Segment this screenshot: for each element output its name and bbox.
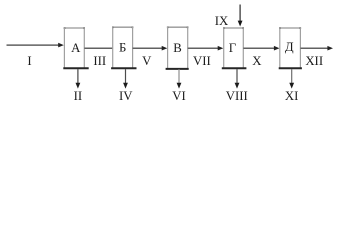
- svg-text:VI: VI: [172, 89, 186, 103]
- svg-text:Г: Г: [229, 41, 236, 55]
- wire A to B, node III: [84, 47, 112, 49]
- svg-text:V: V: [142, 54, 152, 68]
- svg-text:IX: IX: [215, 14, 229, 28]
- arrow IX down into block G: [215, 5, 243, 28]
- arrow down from B to IV: [119, 69, 133, 103]
- svg-text:IV: IV: [119, 89, 133, 103]
- svg-text:Д: Д: [285, 40, 294, 54]
- svg-text:III: III: [93, 54, 106, 68]
- wire B to V, arrow into block V(В), node V: [133, 47, 163, 49]
- svg-text:В: В: [173, 41, 182, 55]
- arrowhead into block A: [58, 43, 64, 48]
- arrow down from V to VI: [172, 69, 186, 103]
- svg-text:Б: Б: [119, 41, 126, 55]
- svg-text:II: II: [74, 89, 83, 103]
- svg-text:I: I: [27, 54, 31, 68]
- arrow down from G to VIII: [226, 69, 248, 103]
- block B (box): [111, 26, 136, 68]
- svg-text:VII: VII: [193, 54, 211, 68]
- arrow down from A to II: [74, 69, 83, 103]
- svg-text:XI: XI: [285, 89, 299, 103]
- arrow down from D to XI: [285, 69, 299, 103]
- wire G to D, node X: [243, 47, 274, 49]
- block A (box): [63, 27, 88, 68]
- block G (box Г): [222, 27, 247, 68]
- svg-text:X: X: [252, 54, 262, 68]
- svg-text:А: А: [71, 41, 81, 55]
- wire V to G, node VII: [188, 47, 219, 49]
- block D (box Д): [279, 27, 302, 68]
- block V (box В): [166, 26, 189, 69]
- svg-text:XII: XII: [305, 54, 323, 68]
- wire D out, node XII: [300, 47, 328, 49]
- svg-text:VIII: VIII: [226, 89, 248, 103]
- wire input stream I: [7, 44, 60, 46]
